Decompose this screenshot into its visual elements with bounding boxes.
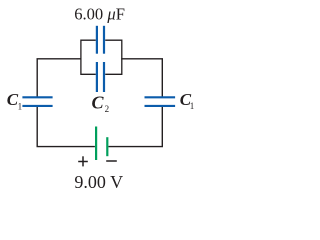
label C1 left (7, 90, 22, 112)
capacitor C2 plates (97, 62, 104, 92)
svg-text:2: 2 (105, 104, 110, 114)
capacitor C1 right plates (145, 97, 176, 106)
battery positive plate (long) (95, 127, 97, 161)
wire box left half (top edge, left edge, bottom edge) (81, 40, 96, 74)
svg-text:9.00 V: 9.00 V (74, 172, 123, 192)
capacitor 6.00 uF plates (97, 26, 104, 54)
wire box right half (top edge, right edge, bottom edge) (105, 40, 122, 74)
label 6.00 uF (74, 5, 125, 24)
label C1 right (180, 90, 195, 111)
label minus (106, 160, 117, 162)
wire bottom-right horizontal + right vertical lower (109, 106, 163, 147)
svg-text:1: 1 (190, 101, 195, 111)
svg-text:C: C (92, 92, 105, 112)
battery negative plate (short) (106, 137, 108, 156)
label 9.00 V (74, 172, 123, 192)
wire top-right: box to right vertical upper (121, 59, 162, 97)
wire top-left: left vertical upper + top horizontal to box (37, 59, 81, 97)
wire left vertical lower + bottom-left horizontal (37, 106, 95, 147)
label C2 (92, 92, 110, 114)
svg-text:6.00 μF: 6.00 μF (74, 5, 125, 24)
capacitor C1 left plates (22, 97, 52, 106)
svg-text:1: 1 (18, 101, 23, 111)
label plus (78, 156, 88, 166)
